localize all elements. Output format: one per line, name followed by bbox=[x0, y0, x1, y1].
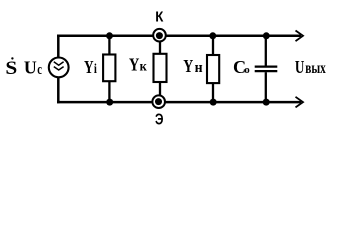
capacitor Co: top plate bbox=[255, 65, 278, 67]
svg-text:U: U bbox=[24, 58, 37, 78]
svg-text:К: К bbox=[155, 9, 163, 25]
svg-text:вых: вых bbox=[305, 60, 326, 77]
svg-text:U: U bbox=[295, 57, 305, 77]
admittance Yi: box bbox=[103, 55, 115, 82]
svg-text:o: o bbox=[244, 64, 250, 76]
svg-text:S: S bbox=[5, 58, 17, 79]
wire: Yn bottom stub bbox=[212, 83, 214, 102]
admittance Yn: box bbox=[207, 55, 219, 83]
svg-text:Y: Y bbox=[183, 56, 193, 76]
terminal K: circle on top bus bbox=[153, 29, 166, 42]
svg-text:Y: Y bbox=[84, 57, 94, 77]
junction dot: Yi top bbox=[106, 32, 113, 39]
svg-text:к: к bbox=[140, 60, 148, 75]
terminal E: center dot bbox=[155, 98, 162, 105]
wire: top horizontal bus bbox=[57, 35, 301, 38]
svg-text:i: i bbox=[94, 62, 97, 77]
junction dot: Yn bottom bbox=[210, 99, 217, 106]
wire: left vertical (source branch) bbox=[57, 35, 60, 104]
arrow: bottom output bbox=[296, 97, 304, 108]
source U1: chevron 2 bbox=[54, 67, 64, 70]
junction dot: Yn top bbox=[209, 32, 216, 39]
terminal E: circle on bottom bus bbox=[152, 95, 165, 108]
capacitor Co: bottom lead bbox=[265, 72, 267, 102]
source U1: signal source circle bbox=[49, 58, 69, 78]
capacitor Co: bottom plate bbox=[255, 70, 278, 72]
wire: bottom horizontal bus bbox=[57, 101, 301, 104]
junction dot: Yi bottom bbox=[106, 99, 113, 106]
wire: Yk top stub bbox=[159, 41, 161, 54]
wire: Yi top stub bbox=[108, 36, 110, 55]
svg-text:Y: Y bbox=[129, 55, 140, 75]
admittance Yk: box bbox=[154, 54, 167, 82]
svg-text:Э: Э bbox=[155, 112, 164, 129]
source U1: chevron 1 bbox=[54, 62, 64, 65]
wire: Yn top stub bbox=[212, 36, 214, 55]
wire: Yk bottom stub bbox=[159, 82, 161, 95]
svg-text:н: н bbox=[195, 60, 203, 76]
wire: Yi bottom stub bbox=[108, 81, 110, 102]
junction dot: Co top bbox=[263, 32, 270, 39]
svg-text:c: c bbox=[37, 62, 42, 78]
arrow: top output bbox=[296, 31, 304, 42]
terminal K: center dot bbox=[156, 32, 163, 39]
capacitor Co: top lead bbox=[265, 36, 267, 66]
junction dot: Co bottom bbox=[263, 99, 270, 106]
